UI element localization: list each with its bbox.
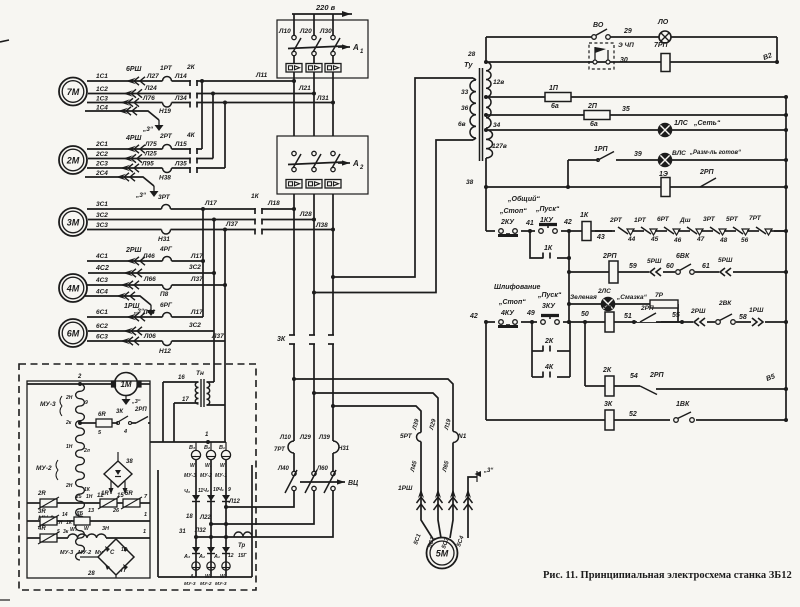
holding contact 1K branch [530, 231, 569, 259]
svg-text:1М: 1М [120, 380, 131, 389]
labels wire 2C2 [95, 151, 157, 159]
svg-text:Л06: Л06 [143, 333, 156, 340]
svg-text:15Г: 15Г [238, 553, 248, 559]
labels wire 4C3 [95, 276, 203, 298]
svg-text:59: 59 [629, 263, 637, 270]
contact 2RP r7 [694, 169, 720, 193]
svg-text:35: 35 [622, 106, 630, 113]
svg-text:Л39: Л39 [318, 435, 330, 441]
contactor coil 3K [604, 401, 637, 430]
motor 6M [59, 319, 87, 347]
svg-text:2П: 2П [587, 103, 598, 110]
svg-text:Ч₁: Ч₁ [218, 487, 224, 493]
plug 2RSh [690, 308, 707, 328]
label 61 [702, 263, 710, 270]
svg-text:Л44: Л44 [142, 309, 155, 316]
svg-text:1С1: 1С1 [96, 73, 108, 80]
svg-text:Л24: Л24 [144, 85, 157, 92]
feeder arrows [417, 489, 473, 510]
svg-text:5РШ: 5РШ [647, 258, 662, 265]
svg-text:38: 38 [466, 179, 474, 186]
svg-text:„Стоп“: „Стоп“ [498, 299, 526, 306]
svg-text:Л34: Л34 [174, 95, 187, 102]
svg-text:2РП: 2РП [602, 253, 618, 260]
svg-text:Л21: Л21 [298, 85, 311, 92]
svg-text:6РТ: 6РТ [657, 216, 670, 223]
svg-text:Л60: Л60 [316, 466, 328, 472]
svg-text:МУ-3: МУ-3 [40, 401, 56, 408]
svg-text:9: 9 [85, 400, 88, 406]
svg-text:ВЛС: ВЛС [672, 150, 686, 157]
svg-text:2К: 2К [186, 64, 196, 71]
node 55 [672, 312, 684, 324]
svg-text:1РТ: 1РТ [160, 65, 173, 72]
labels wire 3C3 [96, 221, 328, 243]
svg-text:2К: 2К [602, 367, 612, 374]
svg-text:61: 61 [702, 263, 710, 270]
svg-text:Н31: Н31 [158, 236, 170, 243]
svg-text:Л95: Л95 [141, 161, 154, 168]
svg-text:60: 60 [666, 263, 674, 270]
svg-text:4К: 4К [603, 304, 613, 311]
wire 4C3 [87, 281, 225, 290]
wires Tn right [207, 366, 226, 442]
switch 1VK [670, 401, 696, 423]
svg-text:3С3: 3С3 [96, 222, 108, 229]
svg-text:1Э: 1Э [659, 171, 668, 178]
svg-text:2РШ: 2РШ [690, 308, 706, 315]
svg-text:Н12: Н12 [159, 348, 171, 355]
svg-text:2Н: 2Н [65, 395, 73, 401]
svg-text:6R: 6R [98, 412, 106, 418]
svg-text:2ВК: 2ВК [718, 300, 732, 307]
tap L34 vertical [223, 101, 227, 169]
svg-text:5: 5 [57, 529, 60, 535]
switch VO [592, 22, 611, 39]
motor 4M [59, 274, 87, 302]
svg-text:1РШ: 1РШ [124, 303, 140, 310]
wire primary phase B [314, 140, 473, 293]
bus L2 node to 3K contact [312, 220, 316, 396]
label Zelenaya [570, 294, 597, 301]
labels feeder [398, 418, 467, 492]
rail ready y160 [568, 158, 788, 187]
wires Tn left [163, 382, 199, 442]
svg-text:Тр: Тр [238, 543, 246, 549]
wire 2C3 / L35 [87, 164, 225, 173]
svg-text:1К: 1К [251, 193, 260, 200]
svg-text:Л11: Л11 [255, 72, 268, 79]
svg-text:МУ-3: МУ-3 [60, 550, 73, 556]
svg-text:6а: 6а [551, 103, 559, 110]
svg-text:2ЛС: 2ЛС [597, 288, 611, 295]
label 39 [634, 151, 642, 158]
svg-text:1: 1 [143, 529, 146, 535]
regulator right frame [158, 465, 252, 577]
svg-text:2РТ: 2РТ [609, 217, 623, 224]
svg-text:Л66: Л66 [143, 276, 156, 283]
lamp VLS ready [659, 150, 741, 167]
svg-text:2R: 2R [37, 491, 46, 497]
svg-text:16: 16 [178, 375, 185, 381]
svg-text:Л20: Л20 [299, 28, 312, 35]
svg-text:3R: 3R [38, 509, 46, 515]
plug 1RSh [749, 307, 765, 328]
svg-text:12в: 12в [493, 79, 504, 86]
bus L2 vertical [313, 14, 315, 94]
svg-text:ВЦ: ВЦ [348, 480, 358, 487]
transformer tap labels [458, 51, 507, 186]
svg-text:1Н: 1Н [86, 494, 93, 500]
resistor 2R [27, 491, 59, 509]
svg-text:3РТ: 3РТ [703, 216, 716, 223]
svg-text:В₃: В₃ [189, 445, 195, 451]
tap L37 vertical [223, 228, 227, 342]
svg-text:44: 44 [627, 236, 636, 243]
svg-text:Рис. 11. Принципиальная электр: Рис. 11. Принципиальная электросхема ста… [543, 570, 792, 581]
svg-text:Л14: Л14 [174, 73, 187, 80]
svg-text:3М: 3М [67, 218, 80, 228]
svg-text:28: 28 [87, 571, 95, 577]
A2 thermal elements [286, 180, 341, 189]
wire tap 28 up [485, 37, 487, 58]
svg-text:4: 4 [123, 429, 127, 435]
thermal contacts chain [595, 226, 786, 237]
svg-text:1ВК: 1ВК [676, 401, 690, 408]
resistor 5R [112, 491, 150, 514]
motor 7M [59, 78, 87, 106]
rail 33 y97 [484, 95, 788, 99]
labels wire 4C1 [95, 246, 203, 260]
terminal B5 [765, 373, 776, 383]
plug 7RT L40 [274, 435, 295, 472]
svg-text:2С4: 2С4 [95, 170, 108, 177]
stop button 4KU [495, 299, 526, 327]
plug 5RSh b [718, 257, 733, 278]
svg-text:ДБ: ДБ [75, 511, 84, 517]
wire 4C4 to earth [85, 289, 151, 306]
svg-text:Л40: Л40 [277, 466, 289, 472]
svg-text:A: A [352, 159, 359, 168]
svg-text:43: 43 [596, 234, 605, 241]
svg-text:Л10: Л10 [279, 435, 291, 441]
labels MU bottom [184, 581, 227, 587]
label 29 [623, 28, 632, 35]
interlock EChP dashed box [589, 43, 614, 69]
svg-text:Ту: Ту [464, 60, 473, 69]
svg-text:А₃: А₃ [183, 554, 190, 560]
relay coil 2RP [602, 253, 637, 283]
regulator inner frame [27, 381, 150, 578]
svg-text:3РТ: 3РТ [158, 194, 171, 201]
earth of 4M [133, 305, 156, 316]
svg-text:1К: 1К [580, 212, 589, 219]
rail 28 y62 [484, 60, 777, 64]
diode column wires [194, 460, 228, 577]
svg-text:П8: П8 [160, 291, 169, 298]
label MU-2 [36, 460, 58, 480]
holding contacts 2K 4K [532, 322, 570, 378]
resistor 1R [98, 491, 123, 509]
svg-text:Дш: Дш [679, 217, 691, 224]
earth of 1M [122, 395, 141, 405]
svg-text:1: 1 [360, 49, 364, 55]
svg-text:4С2: 4С2 [95, 265, 109, 272]
svg-text:Л30: Л30 [319, 28, 332, 35]
label L29 bus [299, 435, 311, 441]
node 49 [526, 310, 535, 324]
svg-text:Л65: Л65 [442, 460, 451, 474]
motor 5M [427, 538, 458, 569]
svg-text:2РТ: 2РТ [159, 133, 173, 140]
labels wire 6C1 [96, 302, 203, 316]
svg-text:6С2: 6С2 [96, 323, 108, 330]
svg-text:В2: В2 [762, 52, 773, 62]
svg-text:5С1: 5С1 [413, 533, 423, 546]
rail 2RP y272 [569, 270, 788, 274]
svg-text:Л17: Л17 [190, 253, 203, 260]
svg-text:2л: 2л [83, 448, 91, 454]
svg-text:7Р: 7Р [655, 292, 664, 299]
svg-text:1: 1 [144, 512, 147, 518]
fuse 1P [545, 85, 571, 110]
svg-text:Л29: Л29 [429, 418, 438, 432]
svg-text:МУ-3: МУ-3 [184, 581, 196, 587]
svg-text:42: 42 [469, 313, 478, 320]
wire 6C2 [88, 327, 214, 335]
labels wire 1C2 [96, 85, 311, 93]
wire 2C4 to earth [85, 170, 154, 186]
svg-text:Л35: Л35 [174, 161, 187, 168]
circuit breaker box A2 [277, 136, 368, 194]
svg-text:5РШ: 5РШ [718, 257, 733, 264]
svg-text:Л38: Л38 [315, 222, 328, 229]
resistor 4R [27, 526, 69, 544]
svg-text:Ч₃: Ч₃ [184, 489, 190, 495]
lamp LO [657, 19, 671, 43]
svg-text:А₁: А₁ [213, 554, 220, 560]
circuit breaker box A1 [277, 20, 368, 78]
node 42 [563, 219, 572, 233]
wire 2C1 / L15 [87, 145, 202, 155]
labels wire 2C3 [95, 161, 187, 182]
contactor coil 2K [602, 367, 638, 396]
contact 1RP [594, 146, 614, 161]
transformer Tu [464, 58, 493, 161]
svg-text:2РП: 2РП [134, 407, 147, 413]
svg-text:W₃: W₃ [70, 527, 77, 533]
scan artifact left edge [0, 40, 10, 600]
svg-text:W: W [84, 526, 90, 532]
label Shlifovanie [494, 284, 540, 291]
svg-text:Л45: Л45 [410, 460, 419, 474]
node 41 [525, 220, 534, 233]
svg-text:46: 46 [673, 237, 682, 244]
svg-text:25: 25 [75, 494, 82, 500]
wire 6C1 [87, 313, 203, 322]
svg-text:3Н: 3Н [102, 526, 110, 532]
wire row 13 [57, 494, 100, 514]
svg-text:3С2: 3С2 [96, 212, 108, 219]
svg-text:В5: В5 [765, 373, 776, 383]
stabilizer 0.5 [57, 511, 150, 525]
svg-text:„3“: „3“ [135, 192, 147, 199]
svg-text:Зеленая: Зеленая [570, 294, 597, 301]
svg-text:54: 54 [630, 373, 638, 380]
svg-text:Л75: Л75 [144, 141, 157, 148]
bus L1 to node L18 [292, 79, 296, 211]
svg-text:1К: 1К [544, 245, 553, 252]
breaker A2 poles [288, 151, 350, 171]
amplifier winding chain [65, 384, 91, 560]
wire primary phase A [333, 78, 473, 277]
svg-text:6С3: 6С3 [96, 334, 108, 341]
svg-text:4РГ: 4РГ [159, 246, 173, 253]
svg-text:14: 14 [62, 512, 68, 518]
svg-text:49: 49 [526, 310, 535, 317]
svg-text:1РШ: 1РШ [749, 307, 764, 314]
svg-text:5R: 5R [125, 491, 133, 497]
resistor 3R [27, 509, 59, 527]
svg-text:„3“: „3“ [483, 468, 493, 474]
svg-text:3С2: 3С2 [189, 322, 201, 329]
svg-text:6С1: 6С1 [96, 309, 108, 316]
svg-text:7: 7 [144, 494, 148, 500]
terminal B2 [762, 52, 779, 64]
lamp 2LS [597, 288, 648, 311]
net 220V supply line [292, 3, 352, 17]
svg-text:„Разм-ль готов“: „Разм-ль готов“ [689, 150, 741, 156]
wire 1C4 to earth [85, 105, 159, 121]
svg-text:2: 2 [77, 374, 82, 380]
svg-text:220 в: 220 в [315, 3, 336, 12]
caption [543, 570, 792, 581]
svg-text:38: 38 [126, 459, 133, 465]
svg-text:МУ-3: МУ-3 [184, 473, 196, 479]
transformer Tn [178, 370, 210, 407]
svg-text:Л15: Л15 [174, 141, 187, 148]
bus L1 below 3K [293, 344, 295, 471]
label MU-3 lower [38, 515, 73, 526]
svg-text:2К: 2К [544, 338, 554, 345]
contact 2RP r11 [637, 305, 682, 322]
right bus B2-B5 [785, 97, 787, 420]
rail 38 y187 [486, 185, 788, 189]
contactor coil 1K [580, 212, 605, 241]
svg-text:Л46: Л46 [142, 253, 155, 260]
contact 2RP aux [131, 407, 150, 423]
svg-text:3С2: 3С2 [189, 264, 201, 271]
rail grinding y322 [469, 313, 788, 324]
svg-text:2РП: 2РП [699, 169, 715, 176]
svg-text:7РТ: 7РТ [274, 447, 286, 453]
svg-text:„3“: „3“ [142, 126, 154, 133]
svg-text:4К: 4К [186, 132, 196, 139]
svg-text:47: 47 [696, 236, 705, 243]
svg-text:Л28: Л28 [299, 211, 312, 218]
svg-text:6М: 6М [67, 329, 80, 339]
svg-text:Л31: Л31 [316, 95, 329, 102]
wire 3C3 / L37 L38 [87, 228, 333, 234]
svg-text:ВО: ВО [593, 22, 604, 29]
svg-text:1С3: 1С3 [96, 96, 108, 103]
rail 3K coil y420 [486, 418, 788, 422]
earth of 7M [142, 120, 164, 133]
svg-text:1КУ: 1КУ [540, 217, 554, 224]
svg-text:Л10: Л10 [278, 28, 291, 35]
svg-text:„Пуск“: „Пуск“ [535, 206, 560, 213]
svg-text:ЛО: ЛО [657, 19, 669, 26]
svg-text:5РТ: 5РТ [726, 216, 739, 223]
rail 2K coil y386 [601, 386, 788, 391]
contact 2RP r12 [640, 372, 665, 395]
svg-text:4КУ: 4КУ [500, 310, 515, 317]
wire net42 left vertical [484, 320, 488, 420]
svg-text:Л27: Л27 [146, 73, 159, 80]
regulator row node 1 [150, 432, 226, 444]
bus L2 segment to A2 [313, 94, 315, 137]
label 60 [666, 263, 674, 270]
svg-text:В₂: В₂ [204, 445, 210, 451]
wire 4C1 [87, 257, 203, 266]
stop button 2KU [495, 208, 527, 236]
labels wire 3C2 [96, 211, 312, 219]
svg-text:П: П [121, 568, 126, 574]
svg-text:Н38: Н38 [159, 175, 171, 182]
svg-text:Л76: Л76 [142, 95, 155, 102]
svg-text:„Общий“: „Общий“ [507, 195, 540, 203]
breaker A1 poles [288, 35, 350, 55]
svg-text:5М: 5М [436, 549, 449, 559]
label 58 [739, 314, 747, 321]
svg-text:4С4: 4С4 [95, 289, 108, 296]
tap 3C2 vertical [212, 218, 216, 332]
regulator dashed enclosure [19, 364, 256, 590]
svg-text:12: 12 [228, 553, 234, 559]
svg-text:„3“: „3“ [131, 399, 141, 405]
svg-text:5РТ: 5РТ [400, 433, 413, 440]
svg-text:45: 45 [650, 236, 659, 243]
svg-text:4С3: 4С3 [95, 277, 108, 284]
svg-text:3КУ: 3КУ [542, 303, 556, 310]
svg-text:Шлифование: Шлифование [494, 284, 540, 291]
label A2 [352, 159, 364, 171]
diodes Ch3 Ch2 Ch1 [184, 487, 231, 502]
svg-text:26: 26 [112, 508, 120, 514]
svg-text:Ч₂: Ч₂ [203, 488, 209, 494]
svg-text:Л17: Л17 [190, 309, 203, 316]
svg-text:127в: 127в [492, 143, 507, 150]
svg-text:4С1: 4С1 [95, 253, 108, 260]
output windings bottom [189, 562, 230, 580]
svg-text:2М: 2М [66, 156, 80, 166]
svg-text:39: 39 [634, 151, 642, 158]
bus L2 below 3K [313, 344, 315, 471]
labels wire 1C3 [96, 95, 329, 115]
svg-text:4РШ: 4РШ [125, 135, 142, 142]
label Obschiy [507, 195, 540, 203]
wire 6C3 [87, 337, 225, 346]
wire 2C2 / L25 [88, 154, 213, 163]
svg-text:Л37: Л37 [211, 333, 224, 340]
svg-text:Л37: Л37 [190, 276, 203, 283]
svg-text:7РП: 7РП [654, 42, 669, 49]
svg-text:50: 50 [581, 311, 589, 318]
switch 2VK [715, 300, 736, 327]
node 50 [567, 311, 589, 324]
svg-text:1: 1 [205, 432, 209, 438]
svg-text:1С4: 1С4 [96, 105, 108, 112]
